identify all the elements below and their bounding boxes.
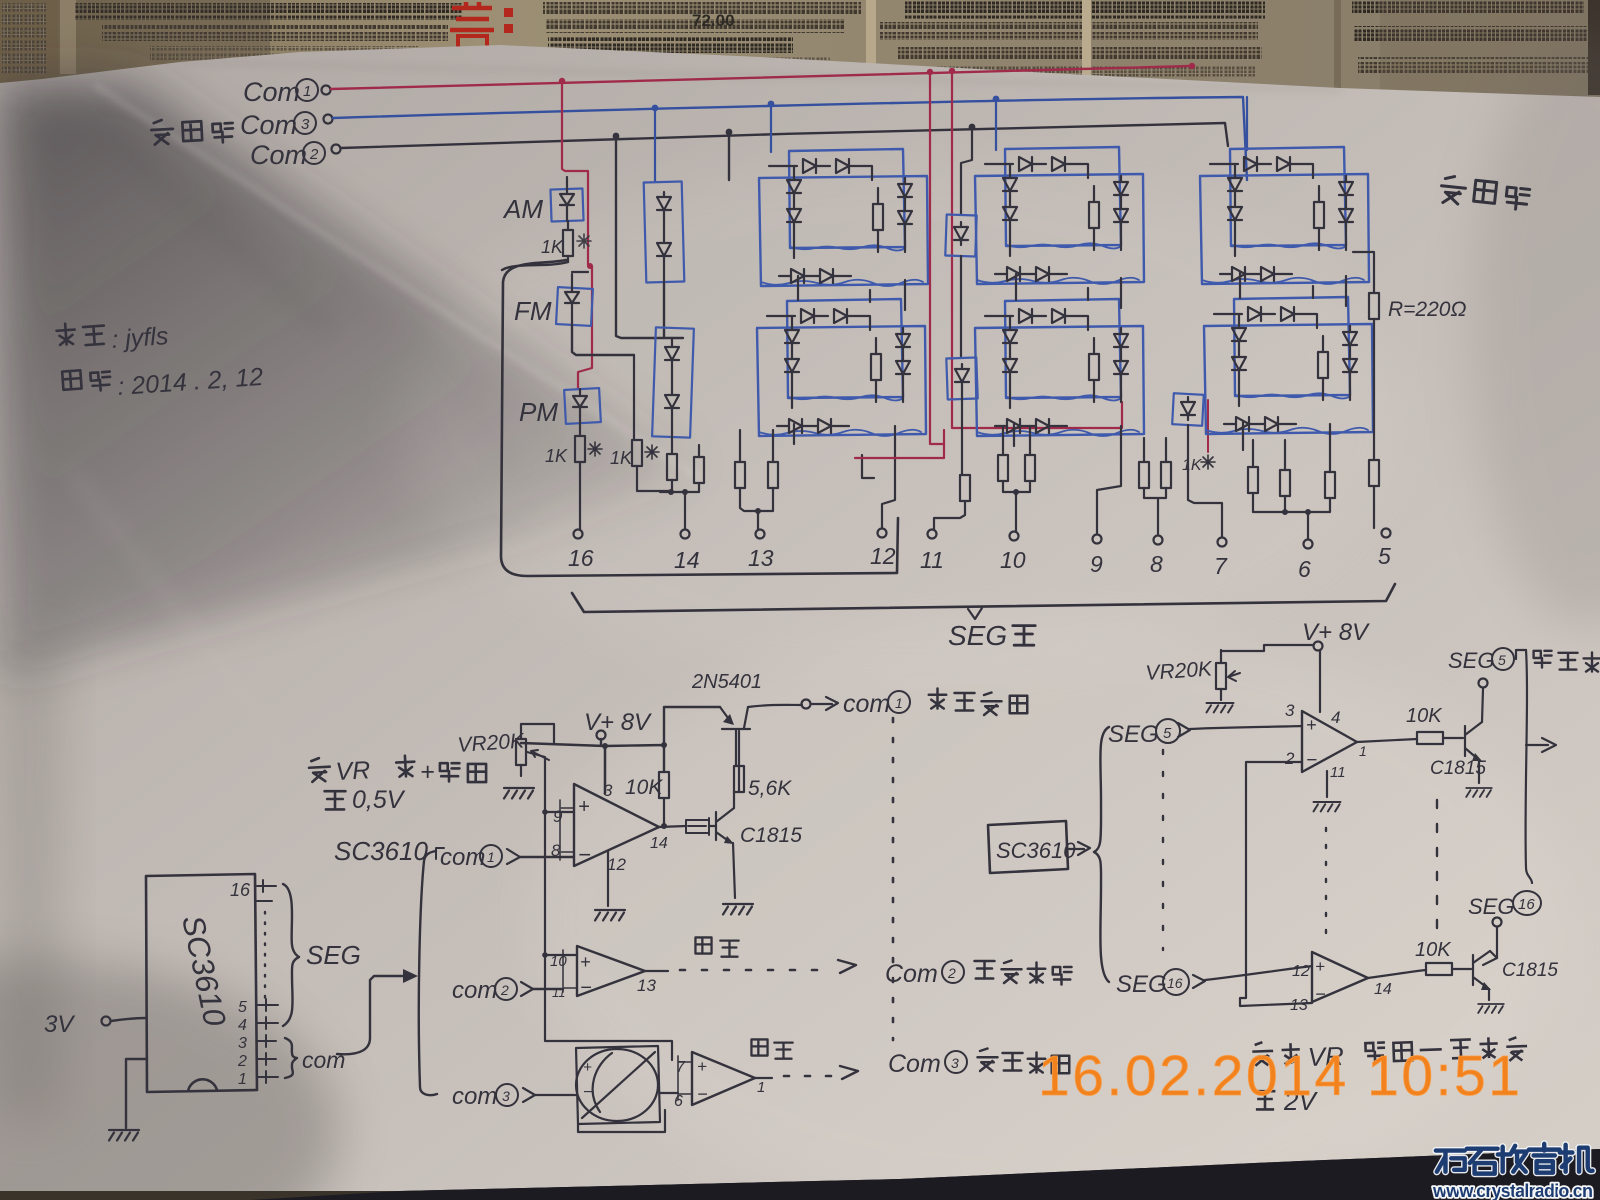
wire digitB link [1014,274,1121,446]
terminal pin5 [1382,529,1391,538]
terminal Com3 [324,115,333,124]
svg-text:14: 14 [674,547,700,573]
svg-text:: jyfls: : jyfls [110,322,169,354]
svg-text:1: 1 [303,83,311,100]
svg-text:12: 12 [870,543,896,569]
arrow to brace [1068,842,1090,855]
svg-text:11: 11 [1330,764,1346,781]
svg-text:VR20K: VR20K [1145,657,1214,685]
terminal pin9 [1093,535,1102,544]
wire bus COM3 (blue) [333,97,1247,180]
label tongShang 2 (hanzi) [751,1039,792,1058]
svg-text:1K: 1K [541,237,564,257]
svg-text:16: 16 [1518,896,1535,913]
svg-text:1: 1 [487,849,495,865]
terminal pin10 [1010,532,1019,541]
ground IC [109,1130,139,1141]
LED 1K near pin7 [1172,393,1222,537]
svg-text:SEG: SEG [1116,971,1167,998]
svg-text:SEG: SEG [306,940,361,970]
wire 3V to IC [111,1018,146,1021]
ground C1815 [723,904,753,915]
svg-text:1K: 1K [1182,457,1203,474]
svg-text:com: com [452,977,497,1004]
svg-text:−: − [580,977,592,999]
wire bus COM1 (red) [331,66,1192,89]
svg-text:12: 12 [1292,963,1310,980]
terminal pin6 [1304,540,1313,549]
svg-text:+: + [580,952,591,972]
svg-text:2: 2 [947,965,956,981]
svg-text:5,6K: 5,6K [748,777,792,800]
wire AM to enclosure [502,262,568,270]
svg-text:5: 5 [1378,543,1391,569]
wire red stub pin7 [1207,400,1209,452]
svg-text:+: + [1315,957,1325,976]
wire digitA link [794,276,905,444]
op-amp U3 [577,946,645,996]
wire display feed down [1526,650,1532,883]
7-seg digit A lower [757,299,926,436]
LED AM [550,177,583,222]
svg-text:+: + [420,758,435,786]
wire C1815 emitter to ground [733,843,735,898]
svg-text:R=220Ω: R=220Ω [1388,298,1466,321]
diode D1 (box) [686,818,709,835]
transistor C1815 Q4 [1473,951,1490,989]
wire SEG5 to op [1190,726,1302,729]
7-seg digit C lower [1204,297,1373,434]
wire com2 to op2 [533,988,563,990]
svg-text:PM: PM [519,397,558,427]
terminal pin7 [1218,538,1227,547]
wire digitB right to pin9 [1097,426,1121,534]
terminal pin8 [1154,536,1163,545]
svg-text:2: 2 [1284,749,1295,768]
svg-text:16: 16 [568,545,594,571]
resistors under digit A [735,462,745,488]
svg-text:9: 9 [553,807,563,826]
svg-text:1K: 1K [545,446,568,466]
wire SEG16 to op [1205,966,1312,980]
watermark crystalradio [1432,1144,1593,1200]
dashed com1 line [892,718,895,1040]
op-amp U6 [1312,952,1368,1002]
svg-text:13: 13 [1290,997,1308,1014]
svg-text:−: − [697,1084,708,1104]
ground VR2 [1207,703,1234,712]
terminal pin16 [574,530,583,539]
wire op2 out dashed [645,970,668,972]
svg-text:−: − [1306,750,1317,771]
op-amp U5 [1302,711,1357,772]
wire op out [1357,739,1417,742]
wire pin3 [604,746,606,793]
svg-text:com: com [452,1083,497,1110]
svg-text:Com: Com [243,77,300,107]
label Com 3 to display [888,1050,967,1078]
7-seg digit C upper [1200,147,1369,284]
svg-text:SEG: SEG [1448,648,1494,673]
svg-text:13: 13 [637,976,656,995]
svg-text:V+ 8V: V+ 8V [1302,619,1370,646]
wire blue drop digitB [995,99,997,150]
svg-text:6: 6 [1298,556,1311,582]
terminal pin14 [681,530,690,539]
dashed verticals [1162,750,1164,950]
label Com 3 [240,110,316,140]
svg-text:SC3610: SC3610 [334,836,428,866]
terminal Com2 [332,145,341,154]
terminal V8 [1314,642,1323,651]
svg-text:−: − [583,1084,592,1101]
ground op right [1314,802,1341,811]
enclosure box [501,260,898,576]
7-seg digit B upper [975,147,1144,284]
camera date stamp [1038,1044,1522,1108]
wire red drop to AM/FM/PM [562,81,592,389]
svg-text:7: 7 [1214,553,1228,579]
svg-text:−: − [578,842,591,867]
terminal pin13 [756,530,765,539]
svg-text:3: 3 [238,1035,247,1052]
svg-text:+: + [697,1057,707,1076]
colon LED upper [945,127,976,257]
indicator column lower (2 LEDs) [652,327,694,454]
svg-text:5: 5 [238,999,247,1016]
wire FM down and right [572,325,634,355]
terminal V+8V [597,731,606,740]
svg-text:−: − [1315,984,1326,1004]
svg-text:Com: Com [240,110,297,140]
terminal pin12 [878,529,887,538]
label SEG 5 out [1448,648,1514,673]
wire digitA right to pin12 [862,426,895,528]
wire pin11 ground [1326,771,1328,797]
svg-text:2: 2 [237,1053,247,1070]
svg-text:2: 2 [500,982,509,998]
label SEG 16 mid [1468,891,1541,919]
wire black drop digitA [728,132,730,180]
svg-text:SEG: SEG [1108,721,1159,748]
svg-text:+: + [578,796,590,818]
svg-text:16: 16 [230,880,251,900]
brace SEG row [572,584,1395,612]
label riQi: 2014.2.12 [62,368,111,393]
pins 5-1 [237,999,247,1088]
svg-text:Com: Com [885,960,938,988]
resistor 5.6K [734,766,744,792]
ground VR1 [504,788,534,799]
newspaper under sheet, top strip [0,0,1600,110]
svg-text:com: com [843,690,890,718]
label wei 0.5V [325,791,346,809]
wire op1 out [659,826,686,827]
svg-text:13: 13 [748,545,774,571]
svg-text:3: 3 [301,116,310,133]
svg-text:9: 9 [1090,551,1103,577]
svg-text:11: 11 [920,547,944,573]
7-seg digit B lower [975,299,1144,436]
svg-text:14: 14 [1374,981,1392,998]
junction dots on buses [559,63,1195,140]
svg-text:10K: 10K [625,776,663,799]
svg-text:+: + [583,1059,592,1076]
svg-text:1: 1 [895,695,903,711]
wire blue drop digitA [770,104,772,152]
wire digitC link [1240,272,1346,450]
svg-text:V+ 8V: V+ 8V [584,709,652,736]
newspaper slivers along left edge [0,330,20,1160]
wire red drops center [855,71,1122,458]
svg-text:Com: Com [888,1050,941,1078]
svg-text:+: + [1306,715,1317,735]
potentiometer VR1 [516,739,526,765]
label gongGongJi (hanzi) [151,116,234,146]
potentiometer VR2 [1216,663,1226,689]
svg-text:8: 8 [1150,551,1163,577]
label tiaoJieVR shuRu yiDuanDianPing (hanzi) [1252,1041,1300,1066]
svg-text:1: 1 [1359,743,1367,759]
brace SEG5..SEG16 [1094,727,1109,982]
ground op1 [595,910,625,921]
terminal pin11 [928,530,937,539]
wire emitter ground [1478,760,1480,783]
wire com to selector arrow [337,976,410,1054]
wire blue drop digitC [1246,97,1248,150]
wire com1 output [748,705,802,707]
LED PM [564,388,601,424]
svg-text:5: 5 [1163,725,1172,742]
wire 0.5V rail [527,752,672,1060]
svg-text:3: 3 [951,1055,959,1071]
svg-text:SEG: SEG [1468,894,1514,919]
wire pin2 loop [1240,762,1312,1006]
svg-text:SEG: SEG [948,620,1007,651]
indicator column upper (2 LEDs) [644,108,685,284]
label gongYangPing (hanzi) [1440,175,1530,211]
op-amp U2 [574,784,659,866]
svg-text:SC3610: SC3610 [996,838,1076,863]
svg-text:4: 4 [1331,708,1340,727]
svg-text:72.00: 72.00 [692,11,735,30]
resistors under column [667,454,677,480]
label Com 2 to display [885,960,964,988]
resistors under digit C [1248,467,1258,493]
wire collector to SEG5 terminal [1482,689,1483,722]
label com 3 input [452,1083,535,1110]
svg-text:10K: 10K [1406,705,1443,727]
svg-text:5: 5 [1498,652,1506,668]
label com 2 input [452,977,533,1004]
wire com selector vertical [419,851,437,1095]
svg-text:2: 2 [309,146,319,163]
label jieXianShiPing (hanzi) [1516,650,1526,659]
terminal 3V [102,1017,111,1026]
resistors to pin8 [1139,462,1149,488]
label com 1 input [440,844,520,871]
wire IC to ground [126,1059,147,1128]
arrow v [968,608,982,619]
svg-text:10K: 10K [1415,939,1452,961]
svg-text:VR: VR [335,756,371,786]
label tiaoVR shi +shuru (hanzi) [309,758,331,782]
label Com 1 [243,77,318,107]
wire pin12 to ground [607,851,609,906]
colon LED lower [946,256,977,475]
label wei 2V [1255,1091,1276,1109]
bottom dark table edge [0,1149,1600,1200]
label tongShang (hanzi) [695,937,738,956]
wire supply rail right [1221,645,1320,712]
svg-text:1: 1 [238,1071,247,1088]
svg-text:3: 3 [502,1088,510,1104]
svg-text:com: com [440,844,485,871]
label SEG 16 input [1116,969,1205,998]
wire bus COM2 (black) [341,123,1228,148]
transistor C1815 Q3 [1465,722,1482,760]
op-amp U4 [692,1052,755,1105]
brace com pins [285,1038,297,1078]
svg-text:C1815: C1815 [1502,960,1558,981]
svg-text:com: com [302,1047,345,1073]
brace SEG pins [283,884,299,1026]
LED FM [556,272,593,326]
label com1 to display [843,690,910,718]
svg-text:C1815: C1815 [740,824,802,847]
svg-text:10: 10 [1000,547,1026,573]
svg-text:1: 1 [757,1079,765,1096]
transistor C1815 Q2 [709,808,734,842]
svg-text:4: 4 [238,1017,247,1034]
svg-text:3V: 3V [44,1011,75,1038]
IC U1 SC3610 body [146,874,257,1092]
wire com3 to box [535,1093,678,1132]
svg-text:www.crystalradio.cn: www.crystalradio.cn [1432,1181,1593,1200]
wire supply rail [521,707,720,793]
svg-text:AM: AM [502,194,543,224]
pins dotted [264,912,266,998]
7-seg digit A upper [759,149,928,286]
svg-text:2N5401: 2N5401 [691,671,762,693]
svg-text:14: 14 [650,835,668,852]
crossed-out amp (ellipse) [576,1046,660,1124]
IC label box SC3610 [988,821,1068,873]
wire op out [1368,970,1426,978]
wire com1 to op1 [520,856,574,858]
svg-text:16: 16 [1167,975,1183,991]
wire black feeder to indicator column [616,136,683,338]
resistor R=220 [1353,252,1466,528]
svg-text:16.02.2014 10:51: 16.02.2014 10:51 [1038,1044,1522,1108]
svg-text:0,5V: 0,5V [352,786,406,814]
terminal Com1 [322,86,331,95]
svg-text:1K: 1K [610,448,633,468]
svg-text:12: 12 [607,855,626,874]
resistor colon chain [960,475,970,501]
svg-text:3: 3 [1285,701,1295,720]
label SEG 5 input [1108,719,1190,748]
label sheJi: jyfls [56,321,105,347]
svg-text:FM: FM [514,296,552,326]
svg-text:Com: Com [250,140,307,170]
wire emitter ground lower [1488,989,1490,1000]
wire op3 out dashed [755,1077,772,1079]
label Com 2 [250,140,325,170]
resistors under digit B [998,455,1008,481]
